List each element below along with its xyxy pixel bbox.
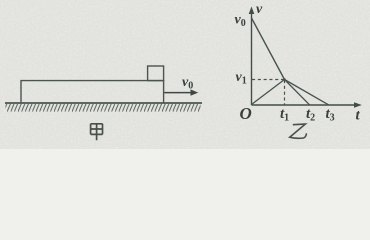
block on plank bbox=[148, 66, 164, 81]
scan noise top-left bbox=[30, 2, 56, 4]
dashed line junction to t1 bbox=[284, 80, 286, 105]
scan noise right of yi bbox=[320, 126, 332, 127]
junction point bbox=[283, 78, 286, 81]
plank (board on ground) bbox=[21, 81, 164, 103]
svg-text:v: v bbox=[256, 2, 263, 17]
line junction to t3 bbox=[285, 80, 329, 105]
main deceleration line v0 to junction bbox=[252, 18, 285, 80]
label 乙 bbox=[290, 124, 307, 138]
svg-text:O: O bbox=[240, 104, 252, 123]
arrow v0 (left diagram) bbox=[164, 92, 191, 94]
ground hatching bbox=[6, 104, 201, 112]
ground line bbox=[5, 102, 202, 104]
v axis (y-axis) bbox=[251, 11, 253, 105]
scan noise texture bbox=[0, 0, 370, 149]
scan noise top-mid bbox=[88, 6, 100, 7]
paper background bbox=[0, 0, 370, 149]
scan noise bottom-right bbox=[330, 134, 344, 136]
label 甲 bbox=[91, 124, 103, 140]
line O to junction bbox=[252, 80, 285, 105]
t axis (x-axis) bbox=[252, 104, 358, 106]
scan noise right edge bbox=[352, 55, 362, 56]
line junction to t2 bbox=[285, 80, 310, 105]
dashed line v1 to junction bbox=[252, 79, 285, 81]
scan noise top-right check mark bbox=[334, 2, 345, 12]
